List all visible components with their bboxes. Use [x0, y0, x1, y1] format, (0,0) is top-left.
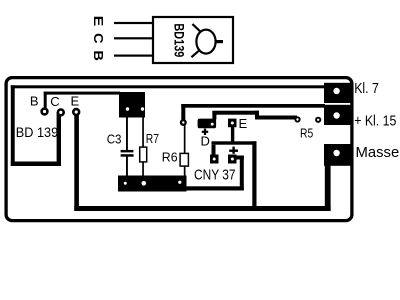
- lead wire C: [114, 37, 152, 39]
- transistor symbol collector lead: [192, 24, 200, 32]
- resistor R6 body: [180, 153, 188, 166]
- pad E (CNY37 emitter): [228, 119, 237, 128]
- wire: CNY vertical down to ground trace: [252, 141, 256, 211]
- wire: C trace left vertical: [11, 85, 15, 166]
- resistor R7 body: [140, 147, 147, 162]
- wire: Masse vertical: [325, 160, 331, 211]
- svg-text:E: E: [239, 116, 248, 131]
- board outline: [6, 78, 352, 221]
- wire: R7 top lead: [142, 117, 144, 148]
- svg-text:B: B: [91, 50, 105, 61]
- wire: B trace to block: [44, 92, 120, 95]
- transistor symbol emitter lead: [191, 51, 198, 57]
- pad B (ring): [40, 107, 48, 115]
- terminal pad Kl.7: [324, 83, 351, 103]
- wire: C trace top run to Kl.7 pad: [11, 85, 326, 88]
- wire: bottom ground trace: [74, 206, 330, 211]
- node ring above R6: [180, 119, 187, 126]
- pad CNY37 plus: [228, 155, 237, 164]
- capacitor C3 bottom plate: [121, 154, 134, 157]
- resistor R5 left pad: [294, 116, 300, 122]
- svg-text:BD139: BD139: [171, 23, 187, 57]
- svg-text:C: C: [91, 33, 105, 44]
- svg-text:R7: R7: [146, 131, 159, 146]
- pad C (ring): [57, 108, 65, 116]
- terminal pad +Kl.15: [324, 105, 351, 125]
- svg-text:E: E: [71, 93, 80, 108]
- pad E (ring): [72, 108, 80, 116]
- wire: C trace U bottom: [11, 162, 61, 167]
- svg-text:D: D: [201, 134, 210, 149]
- wire: C3 top lead: [126, 117, 128, 150]
- svg-text:C: C: [50, 94, 59, 109]
- wire: trace B lower horizontal to R5: [255, 116, 297, 120]
- diode D pad bar: [198, 119, 217, 129]
- lead wire E: [114, 22, 152, 24]
- plus mark near D: [202, 131, 208, 133]
- lead wire B: [114, 55, 152, 57]
- wire: B pad vertical: [44, 92, 47, 112]
- svg-text:+ Kl. 15: + Kl. 15: [354, 113, 396, 130]
- plus mark above plus pad: [229, 150, 238, 152]
- ground bar pad: [118, 176, 187, 192]
- package outline: [153, 17, 233, 63]
- wire: trace B step vertical: [255, 111, 259, 120]
- pad block (B net) with two holes: [119, 92, 145, 118]
- wire: R6 bottom lead: [184, 166, 186, 176]
- svg-text:R5: R5: [300, 126, 313, 141]
- wire: E horizontal: [212, 141, 257, 144]
- pad CNY37 left (collector): [210, 155, 219, 164]
- svg-text:BD 139: BD 139: [16, 125, 58, 140]
- resistor R5 right pad: [315, 117, 321, 123]
- wire: C trace vertical under C pad: [57, 112, 61, 166]
- transistor Q1 package BD139 (top drawing): [91, 16, 233, 63]
- svg-text:E: E: [91, 16, 105, 27]
- svg-text:Masse: Masse: [356, 144, 400, 161]
- svg-text:B: B: [30, 93, 39, 108]
- wire: R6 top lead: [184, 125, 186, 154]
- svg-text:Kl. 7: Kl. 7: [354, 80, 379, 97]
- wire: R7 bottom lead: [142, 162, 144, 177]
- wire: ring pad up vertical (trace A start): [181, 104, 185, 123]
- wire: BD139-E vertical down: [74, 112, 79, 211]
- wire: plus trace vertical: [240, 156, 244, 191]
- wire: E pad vertical down: [231, 123, 234, 143]
- terminal pad Masse: [324, 144, 351, 166]
- transistor symbol base stub: [216, 40, 223, 43]
- svg-text:C3: C3: [107, 132, 122, 147]
- svg-text:R6: R6: [162, 150, 178, 165]
- wire: C3 bottom lead: [126, 157, 128, 176]
- wire: plus trace horizontal to bar: [184, 186, 244, 190]
- wire: stub to left square pad: [212, 145, 216, 156]
- capacitor C3 top plate: [121, 150, 134, 153]
- wire: trace B horizontal: [212, 111, 259, 115]
- wire: D bar stub up: [212, 111, 216, 120]
- svg-text:CNY 37: CNY 37: [194, 167, 236, 183]
- transistor symbol circle: [196, 30, 215, 54]
- wire: plus pad stub right: [237, 156, 244, 160]
- wire: trace A horizontal to +Kl.15 pad: [181, 104, 325, 108]
